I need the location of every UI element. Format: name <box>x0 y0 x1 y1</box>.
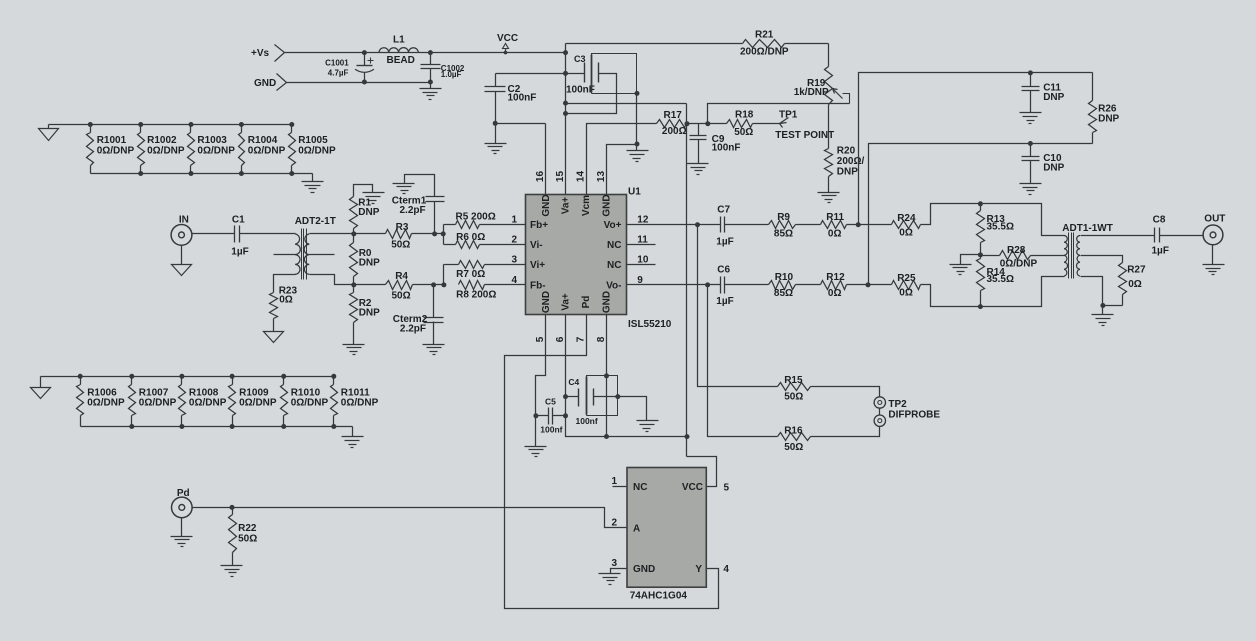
svg-text:50Ω: 50Ω <box>784 442 803 453</box>
svg-text:0Ω: 0Ω <box>828 288 842 299</box>
ground below OUT <box>1203 245 1225 275</box>
ground below IN <box>172 246 192 276</box>
ground at pin13 node <box>627 145 649 162</box>
svg-text:2.2pF: 2.2pF <box>400 323 426 334</box>
wire R10 to R12 <box>796 284 821 286</box>
svg-text:85Ω: 85Ω <box>774 288 793 299</box>
junction L1/C1002 <box>428 50 433 55</box>
potentiometer R19 1k/DNP <box>794 67 850 105</box>
svg-text:0Ω/DNP: 0Ω/DNP <box>291 398 329 409</box>
svg-text:85Ω: 85Ω <box>774 229 793 240</box>
svg-text:ISL55210: ISL55210 <box>628 319 672 330</box>
wire long VA+ vertical <box>687 104 717 487</box>
svg-text:100nf: 100nf <box>576 416 598 426</box>
svg-text:R1011: R1011 <box>341 387 370 398</box>
svg-text:R10: R10 <box>775 272 794 283</box>
resistor R1003 0ohm/DNP <box>188 122 236 176</box>
port GND <box>254 74 287 91</box>
resistor R1005 0ohm/DNP <box>289 122 337 176</box>
svg-text:R25: R25 <box>897 273 916 284</box>
wire R9 to R11 <box>796 224 821 226</box>
wire ADT2 primary bottom <box>274 275 296 293</box>
resistor R22 50ohm <box>229 508 258 566</box>
ground below pin5 <box>525 447 547 457</box>
resistor R27 0ohm <box>1119 263 1146 306</box>
U2 pin3 GND <box>599 558 656 585</box>
power flag VCC <box>497 33 518 54</box>
resistor R3 50ohm <box>386 222 412 250</box>
svg-text:0Ω/DNP: 0Ω/DNP <box>147 145 185 156</box>
svg-text:5: 5 <box>724 482 730 493</box>
svg-text:0Ω/DNP: 0Ω/DNP <box>197 145 235 156</box>
svg-text:C6: C6 <box>717 264 730 275</box>
ground right of R100x bank <box>302 174 324 193</box>
svg-text:Vo+: Vo+ <box>604 220 622 231</box>
wire +Vs rail <box>285 52 566 54</box>
connector Pd <box>172 488 193 518</box>
junction output ground node <box>1100 303 1105 308</box>
U1 right pin numbers <box>637 215 649 286</box>
wire secondary top to C8 <box>1087 235 1155 237</box>
svg-text:Vi-: Vi- <box>530 240 543 251</box>
ground below C1002 <box>420 83 442 100</box>
wire R100x top rail <box>49 124 292 126</box>
svg-text:5: 5 <box>535 336 546 342</box>
svg-text:TP1: TP1 <box>779 110 798 121</box>
svg-text:1: 1 <box>611 476 617 487</box>
resistor R7 0ohm <box>444 261 526 281</box>
svg-text:R28: R28 <box>1007 245 1026 256</box>
svg-text:R9: R9 <box>777 212 790 223</box>
svg-text:R1003: R1003 <box>197 135 227 146</box>
svg-text:A: A <box>633 524 640 535</box>
svg-text:R22: R22 <box>238 523 257 534</box>
wire R17 node to R18 <box>687 123 727 125</box>
U1 left pin names <box>530 220 548 291</box>
junction VA+ to inverter <box>685 434 690 439</box>
svg-text:DNP: DNP <box>358 207 379 218</box>
svg-text:C4: C4 <box>568 377 579 387</box>
wire pin13 to gnd node <box>607 145 637 195</box>
U2 pin2 A <box>611 518 640 535</box>
resistor R1004 0ohm/DNP <box>239 122 286 176</box>
svg-text:200Ω/DNP: 200Ω/DNP <box>740 47 789 58</box>
wire R101x bottom rail <box>81 426 353 428</box>
U1 pin11 stub <box>627 244 656 246</box>
junction R14 bottom <box>978 304 983 309</box>
wire Vo- sense down <box>708 285 778 437</box>
svg-text:GND: GND <box>633 564 655 575</box>
svg-text:4: 4 <box>723 564 729 575</box>
ground below R22 <box>221 566 243 577</box>
svg-text:DNP: DNP <box>1043 92 1064 103</box>
svg-text:1µF: 1µF <box>716 237 733 248</box>
svg-text:TP2: TP2 <box>888 399 907 410</box>
resistor R1010 0ohm/DNP <box>281 374 329 429</box>
svg-text:GND: GND <box>254 78 276 89</box>
resistor R17 200ohm <box>657 110 687 137</box>
junction R3 input node <box>351 231 356 236</box>
svg-text:C7: C7 <box>717 204 730 215</box>
U2 pin4 Y <box>505 315 730 609</box>
svg-text:NC: NC <box>607 240 621 251</box>
svg-text:R8 200Ω: R8 200Ω <box>456 290 496 301</box>
svg-text:200Ω/: 200Ω/ <box>837 156 865 167</box>
U1 top pin names <box>541 194 613 216</box>
svg-text:R7 0Ω: R7 0Ω <box>456 269 485 280</box>
inverter U2 74AHC1G04 body <box>627 468 706 602</box>
junction C10 branch <box>866 282 871 287</box>
wire fork to R5/R6 <box>443 225 445 245</box>
U1 top pin numbers <box>535 171 607 183</box>
stub ADT2 secondary centre tap <box>310 254 335 256</box>
junction pin8 box top <box>604 373 609 378</box>
svg-text:R11: R11 <box>826 212 844 223</box>
resistor R1011 0ohm/DNP <box>331 374 379 429</box>
capacitor Cterm1 2.2pF <box>392 175 445 234</box>
svg-text:100nF: 100nF <box>508 93 537 104</box>
U2 pin1 NC <box>611 476 647 493</box>
svg-text:0Ω/DNP: 0Ω/DNP <box>341 398 379 409</box>
U1 right pin names <box>604 220 622 291</box>
wire R4 input <box>354 284 386 286</box>
capacitor C3 100nF <box>566 54 599 96</box>
wire R3 input <box>354 233 386 235</box>
svg-text:Vo-: Vo- <box>606 280 621 291</box>
wire C8 to OUT <box>1160 235 1203 237</box>
transformer ADT1-1WT <box>1057 223 1113 278</box>
svg-text:ADT1-1WT: ADT1-1WT <box>1062 223 1113 234</box>
wire R3 output <box>412 233 444 235</box>
svg-text:R21: R21 <box>755 30 774 41</box>
svg-text:0Ω/DNP: 0Ω/DNP <box>239 398 277 409</box>
wire R16 to TP2 <box>811 427 880 437</box>
svg-text:Fb-: Fb- <box>530 280 546 291</box>
ground below C9 <box>687 164 709 175</box>
svg-text:BEAD: BEAD <box>387 55 415 66</box>
ground below C2 <box>485 124 507 154</box>
ground below R23 <box>264 319 284 343</box>
svg-text:VCC: VCC <box>682 482 703 493</box>
svg-text:50Ω: 50Ω <box>238 533 257 544</box>
svg-text:0Ω: 0Ω <box>828 229 842 240</box>
port +Vs <box>251 45 285 62</box>
svg-text:R1008: R1008 <box>189 387 219 398</box>
connector IN <box>171 215 192 246</box>
svg-text:Vi+: Vi+ <box>530 260 545 271</box>
svg-text:TEST POINT: TEST POINT <box>775 130 834 141</box>
wire R27 bottom <box>1103 305 1123 307</box>
wire R25 to transformer <box>921 277 1057 307</box>
svg-text:7: 7 <box>575 336 586 342</box>
capacitor C2 100nF <box>485 74 537 124</box>
svg-text:DIFPROBE: DIFPROBE <box>888 410 940 421</box>
capacitor C8 1uF <box>1152 214 1169 256</box>
ground right of R101x bank <box>342 427 364 448</box>
junction C4 box right <box>615 394 620 399</box>
capacitor C6 1uF <box>716 264 733 307</box>
resistor R6 0ohm <box>444 232 526 249</box>
junction C3 return/VCC column <box>563 111 568 116</box>
junction Cterm2 node <box>431 282 436 287</box>
wire GND rail <box>287 82 431 84</box>
wire C1 to transformer <box>240 233 296 235</box>
svg-text:C1001: C1001 <box>325 58 349 67</box>
op-amp U1 ISL55210 body <box>526 187 672 331</box>
svg-text:U1: U1 <box>628 187 641 198</box>
svg-text:R24: R24 <box>897 213 916 224</box>
svg-text:1k/DNP: 1k/DNP <box>794 87 829 98</box>
junction C10 top <box>1028 141 1033 146</box>
svg-text:2: 2 <box>611 518 617 529</box>
U1 pin10 stub <box>627 264 656 266</box>
svg-text:0Ω/DNP: 0Ω/DNP <box>139 398 177 409</box>
svg-text:1.0µF: 1.0µF <box>441 70 462 79</box>
svg-text:R4: R4 <box>395 271 408 282</box>
wire C3 right plate return <box>566 74 617 114</box>
resistor R1002 0ohm/DNP <box>138 122 185 176</box>
junction C2/VCC column <box>563 71 568 76</box>
svg-text:0Ω/DNP: 0Ω/DNP <box>189 398 227 409</box>
junction C11 branch <box>856 222 861 227</box>
svg-text:R1009: R1009 <box>239 387 269 398</box>
svg-text:DNP: DNP <box>359 307 380 318</box>
resistor R1006 0ohm/DNP <box>77 374 126 427</box>
svg-text:4.7µF: 4.7µF <box>328 69 349 78</box>
svg-text:R1001: R1001 <box>97 135 127 146</box>
wire pin5 column <box>536 315 546 447</box>
svg-text:R1002: R1002 <box>147 135 177 146</box>
svg-text:0Ω: 0Ω <box>279 294 293 305</box>
svg-text:0Ω: 0Ω <box>1128 279 1142 290</box>
resistor R1008 0ohm/DNP <box>179 374 227 429</box>
svg-text:6: 6 <box>555 336 566 342</box>
junction C4 left <box>563 394 568 399</box>
resistor R16 50ohm <box>778 425 811 452</box>
ground at output <box>1092 306 1114 326</box>
svg-text:R16: R16 <box>784 425 803 436</box>
svg-text:R18: R18 <box>735 110 754 121</box>
U1 bottom pin names <box>541 291 613 313</box>
svg-text:DNP: DNP <box>359 257 380 268</box>
wire R4 output <box>413 284 444 286</box>
svg-text:C1: C1 <box>232 215 245 226</box>
wire R11 to R24 <box>847 224 892 226</box>
wire R21 to R19 <box>828 44 830 67</box>
svg-text:50Ω: 50Ω <box>391 239 410 250</box>
svg-text:R15: R15 <box>784 375 803 386</box>
capacitor Cterm2 2.2pF <box>393 285 445 355</box>
svg-text:VCC: VCC <box>497 33 518 44</box>
svg-text:ADT2-1T: ADT2-1T <box>295 216 336 227</box>
junction Vo+ sense tap <box>695 222 700 227</box>
resistor R15 50ohm <box>778 375 811 403</box>
wire R19 to R20 <box>828 105 830 149</box>
resistor R24 0ohm <box>892 213 921 238</box>
capacitor C1001 4.7uF (polarized) <box>325 53 374 83</box>
svg-text:35.5Ω: 35.5Ω <box>987 274 1014 285</box>
wire R101x top rail <box>41 376 334 378</box>
resistor R26 DNP <box>1089 73 1120 144</box>
svg-text:R3: R3 <box>396 222 409 233</box>
resistor R14 35.5ohm <box>977 255 1014 307</box>
resistor R2 DNP <box>350 285 381 345</box>
svg-text:GND: GND <box>602 291 613 313</box>
wire R15 to TP2 <box>811 387 880 397</box>
svg-text:+Vs: +Vs <box>251 48 270 59</box>
wire Vo+ rail <box>627 224 721 226</box>
wire pin6 column <box>566 315 687 437</box>
svg-text:R5 200Ω: R5 200Ω <box>456 211 496 222</box>
svg-text:2.2pF: 2.2pF <box>400 205 426 216</box>
wire C10 rail <box>869 144 1093 285</box>
svg-text:13: 13 <box>596 171 607 183</box>
svg-text:GND: GND <box>541 291 552 313</box>
junction VCC rail end <box>563 50 568 55</box>
svg-text:Va+: Va+ <box>561 197 572 215</box>
resistor R13 35.5ohm <box>977 204 1014 255</box>
wire secondary tap to R27 <box>1087 256 1123 263</box>
svg-text:1µF: 1µF <box>231 246 248 257</box>
svg-text:R1007: R1007 <box>139 387 169 398</box>
ground at combiner midpoint <box>950 265 972 275</box>
junction C11 top <box>1028 70 1033 75</box>
capacitor C4 100nF <box>566 377 618 426</box>
junction R7/R8 fork <box>441 282 446 287</box>
capacitor C5 100nF <box>536 396 566 434</box>
resistor R10 85ohm <box>769 272 796 299</box>
svg-text:16: 16 <box>535 171 546 183</box>
svg-text:0Ω/DNP: 0Ω/DNP <box>97 145 135 156</box>
svg-text:Vcm: Vcm <box>581 195 592 216</box>
wire secondary bottom to ground <box>1087 277 1103 306</box>
svg-text:DNP: DNP <box>1098 114 1119 125</box>
svg-text:R12: R12 <box>826 272 845 283</box>
junction R13 top <box>978 201 983 206</box>
ground left of R1006 bank <box>31 377 51 399</box>
capacitor C7 1uF <box>716 204 733 247</box>
svg-text:100nF: 100nF <box>712 143 741 154</box>
svg-text:3: 3 <box>611 558 617 569</box>
svg-text:50Ω: 50Ω <box>392 290 411 301</box>
svg-text:100nF: 100nF <box>566 85 595 96</box>
resistor R9 85ohm <box>769 212 796 239</box>
svg-text:GND: GND <box>541 194 552 216</box>
wire R12 to R25 <box>847 284 892 286</box>
wire C7 to R9 <box>725 224 769 226</box>
U1 bottom pin numbers <box>535 336 607 342</box>
junction Cterm1 node <box>432 231 437 236</box>
capacitor C10 DNP <box>1020 144 1065 195</box>
svg-text:C5: C5 <box>545 396 556 406</box>
svg-text:R6 0Ω: R6 0Ω <box>456 232 485 243</box>
wire midpoint to R28 <box>981 255 1000 257</box>
resistor R0 DNP <box>350 234 381 285</box>
resistor R23 0ohm <box>270 286 298 319</box>
wire C6 to R10 <box>725 284 769 286</box>
junction R17 output <box>685 121 690 126</box>
svg-text:200Ω: 200Ω <box>662 126 687 137</box>
wire IN to C1 <box>193 233 235 235</box>
junction R4 input node <box>351 282 356 287</box>
capacitor C1 1uF <box>231 215 248 258</box>
wire Vo- rail <box>627 284 721 286</box>
wire fork to R7/R8 <box>443 265 445 285</box>
svg-text:Pd: Pd <box>581 296 592 309</box>
resistor R18 50ohm <box>727 110 754 139</box>
svg-text:100nf: 100nf <box>540 424 562 434</box>
junction pin13 gnd node <box>635 142 640 147</box>
svg-text:8: 8 <box>596 336 607 342</box>
resistor R1001 0ohm/DNP <box>87 125 135 174</box>
stub ADT2 primary centre tap <box>274 254 296 256</box>
svg-text:R1004: R1004 <box>248 135 278 146</box>
wire C2 bottom rail <box>496 123 546 125</box>
wire Vo+ sense down <box>698 225 778 387</box>
U1 left pin numbers <box>511 215 517 286</box>
junction C5 right <box>563 413 568 418</box>
ground below R2 <box>343 345 365 355</box>
svg-text:R1006: R1006 <box>87 387 117 398</box>
junction R13/R14 midpoint <box>978 252 983 257</box>
capacitor C1002 1.0uF <box>421 53 465 83</box>
resistor R20 200ohm/DNP <box>825 146 865 178</box>
capacitor C9 100nF <box>690 124 741 164</box>
svg-text:0Ω: 0Ω <box>899 227 913 238</box>
svg-text:C8: C8 <box>1153 214 1166 225</box>
wire pin14 to R17 <box>587 124 657 195</box>
wire R28 to centre tap <box>1031 255 1057 257</box>
svg-text:NC: NC <box>633 482 647 493</box>
resistor R12 0ohm <box>821 272 847 299</box>
junction Va+ rail left <box>563 101 568 106</box>
svg-text:R27: R27 <box>1127 265 1146 276</box>
wire VCC column <box>565 44 567 195</box>
ground right of C4 <box>637 421 659 432</box>
svg-text:0Ω/DNP: 0Ω/DNP <box>248 145 286 156</box>
junction R18 node <box>705 121 710 126</box>
inductor L1 BEAD <box>379 35 418 67</box>
wire R21 rail <box>566 43 829 45</box>
svg-text:R17: R17 <box>664 110 683 121</box>
resistor R1 DNP <box>350 185 385 234</box>
svg-text:DNP: DNP <box>837 167 858 178</box>
wire ADT2 secondary top <box>310 233 354 235</box>
ground below Pd <box>171 518 193 547</box>
resistor R1009 0ohm/DNP <box>229 374 277 429</box>
resistor R8 200ohm <box>456 281 525 301</box>
test point TP2 <box>874 397 940 427</box>
svg-text:R20: R20 <box>837 146 856 157</box>
resistor R28 0ohm/DNP <box>1000 245 1038 270</box>
capacitor C11 DNP <box>1020 73 1065 124</box>
wire pin16 column <box>545 124 547 195</box>
svg-text:Va+: Va+ <box>561 293 572 311</box>
wire R100x bottom rail <box>91 173 313 175</box>
resistor R5 200ohm <box>444 211 526 228</box>
test point TP1 <box>753 110 835 142</box>
transformer ADT2-1T <box>295 216 336 280</box>
junction C5 left <box>533 413 538 418</box>
svg-text:0Ω/DNP: 0Ω/DNP <box>298 145 336 156</box>
svg-text:Fb+: Fb+ <box>530 220 548 231</box>
junction C3 box corner <box>635 91 640 96</box>
wire Va+ mid rail <box>566 103 687 105</box>
junction R1001 top <box>88 122 93 127</box>
junction R5/R6 fork <box>441 231 446 236</box>
ground left of R1001 bank <box>39 125 59 141</box>
svg-text:DNP: DNP <box>1043 163 1064 174</box>
